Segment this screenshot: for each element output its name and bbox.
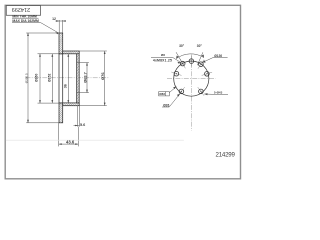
bore ext lines: [77, 62, 89, 64]
hat inner top edge extension: [38, 53, 63, 55]
hat top edge extension right: [80, 50, 107, 52]
svg-text:Ø160: Ø160: [35, 74, 39, 82]
svg-text:5.6: 5.6: [80, 123, 85, 127]
hat bottom edge extension right: [80, 105, 107, 107]
svg-text:4xM8X1.25: 4xM8X1.25: [153, 59, 172, 63]
hat bottom strip: [63, 103, 79, 106]
band top edge extension left: [26, 32, 59, 34]
hat top strip: [63, 51, 79, 54]
dim dia63.7 line: [86, 63, 88, 93]
svg-text:Ø63.7: Ø63.7: [83, 72, 88, 83]
svg-text:30°: 30°: [197, 44, 203, 48]
dim 43.6 ext lines: [58, 123, 60, 147]
dim dia76 line: [104, 51, 106, 106]
dim 43.6 line: [59, 143, 79, 145]
horizontal centerline: [167, 78, 216, 80]
bolt hole at 60: [198, 60, 204, 69]
bolt circle: [174, 61, 209, 96]
angle leg right: [197, 52, 203, 65]
bolt hole at 234: [178, 87, 185, 96]
left view centerline: [26, 77, 110, 79]
svg-text:Ø126: Ø126: [214, 54, 222, 58]
note leader: [40, 22, 58, 33]
disc band middle edges: [59, 54, 63, 103]
note underline 2: [12, 21, 40, 23]
svg-text:Ø290.5: Ø290.5: [25, 73, 29, 83]
dim 12 line: [55, 20, 66, 22]
dim A line: [27, 33, 29, 123]
svg-text:12: 12: [52, 17, 56, 21]
dim 36 line: [67, 54, 69, 103]
svg-text:30°: 30°: [179, 44, 185, 48]
bolt hole at 306: [198, 87, 204, 96]
svg-text:214299: 214299: [12, 6, 30, 12]
dim 12 ext lines: [58, 20, 60, 33]
bolt hole at 120: [180, 59, 185, 68]
title text rotated 180: [12, 6, 30, 12]
svg-text:Ø8: Ø8: [161, 53, 165, 57]
note underline 1: [12, 17, 39, 19]
svg-text:Ø83: Ø83: [159, 92, 165, 96]
dim B line: [39, 54, 41, 103]
dim C line: [51, 54, 53, 103]
disc band section (hatched top): [59, 33, 63, 54]
svg-text:214299: 214299: [216, 152, 236, 159]
hub wall section: [77, 54, 80, 103]
faint bottom divider: [6, 139, 184, 141]
vertical centerline: [190, 55, 192, 131]
bolt top hole: [189, 56, 194, 67]
svg-text:36: 36: [63, 84, 67, 88]
title box top-left: [6, 5, 40, 15]
dim 5.6 line: [74, 125, 80, 127]
svg-text:Ø152: Ø152: [47, 74, 51, 82]
page frame: [5, 5, 240, 179]
svg-text:Ø76: Ø76: [100, 72, 105, 80]
angle arc: [176, 54, 204, 59]
datum box left: [159, 92, 170, 96]
svg-text:5-Ø43: 5-Ø43: [214, 91, 223, 95]
dim 5.6 ext lines: [77, 106, 79, 127]
disc band section (hatched bottom): [59, 103, 63, 123]
angle leg left: [176, 52, 184, 65]
bolt hole at 162: [171, 71, 181, 76]
bolt hole at 18: [202, 72, 212, 77]
band bottom edge extension left: [26, 122, 59, 124]
hat inner bottom edge extension: [38, 102, 63, 104]
